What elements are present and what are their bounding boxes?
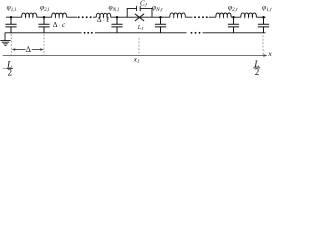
svg-text:Δ: Δ [26,45,31,54]
capacitor at node N,l [111,17,122,33]
dashed guide line at x_J [138,38,140,55]
dashed guide line at second node [43,34,45,55]
capacitor Delta*c at node 2,l [38,17,49,33]
node phi_1,l [10,16,13,19]
dimension arrow Delta (left) [12,48,44,51]
svg-text:CJ: CJ [140,0,148,9]
svg-text:φN,l: φN,l [109,3,120,13]
wire bottom ground rail middle [95,32,187,34]
inductor L (cell 1 right) [241,13,256,17]
capacitor C_J shunt branch (JJ loop top) [127,6,152,17]
wire ellipsis dots top left [78,16,92,18]
svg-text:x: x [267,49,272,58]
inductor Delta*l (cell N left) [96,13,110,17]
svg-text:φ2,r: φ2,r [228,3,238,13]
svg-text:LJ: LJ [137,25,144,31]
node phi_N,l [116,16,119,19]
x axis line [3,55,265,57]
svg-text:φ1,r: φ1,r [262,3,272,13]
inductor L (cell N right) [170,13,186,17]
node phi_2,r [232,16,235,19]
node phi_2,l [43,16,46,19]
inductor L (cell 2 left) [52,13,67,17]
svg-text:2: 2 [8,67,13,77]
label -L/2 (left end) [2,60,13,77]
svg-text:φ2,l: φ2,l [40,3,50,13]
wire ellipsis dots bottom left [84,32,93,34]
dashed guide line at x=-L/2 [10,34,12,55]
svg-text:−: − [2,64,6,73]
svg-text:φ1,l: φ1,l [7,3,17,13]
inductor L (cell 1 left) [22,13,37,17]
dimension arrow Delta (right) [32,49,43,51]
capacitor at node N,r [155,17,166,33]
wire ellipsis dots bottom right [191,32,201,34]
Josephson junction X (L_J) [135,14,144,21]
capacitor Delta*c at node 1,l [5,17,16,33]
capacitor at node 1,r [258,17,269,33]
x axis arrowhead [263,54,267,57]
svg-text:Δ · c: Δ · c [53,20,66,29]
dashed guide line at x=L/2 [262,36,264,56]
svg-text:φN,r: φN,r [152,3,164,13]
svg-text:xJ: xJ [133,56,140,65]
ground [0,33,10,46]
node phi_1,r [262,16,265,19]
capacitor at node 2,r [228,17,239,33]
label L/2 (right end) [253,60,260,77]
svg-text:2: 2 [255,67,259,77]
wire bottom ground rail left [5,32,82,34]
wire bottom ground rail right [203,32,266,34]
wire ellipsis dots top right [194,16,208,18]
wire top rail right section [209,16,266,18]
inductor L (cell 2 right) [216,13,231,17]
wire top rail middle left [93,16,193,18]
wire top rail left section [6,16,77,18]
node phi_N,r [159,16,162,19]
